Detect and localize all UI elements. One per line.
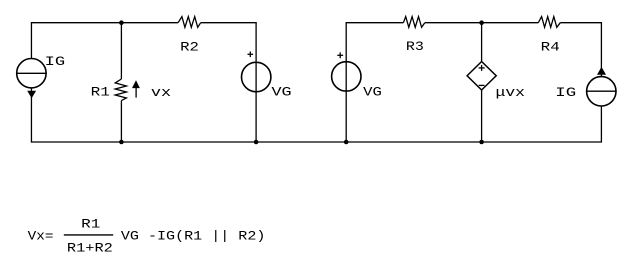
svg-text:R1: R1: [81, 216, 100, 231]
svg-text:R2: R2: [180, 39, 199, 54]
wire: dependent source branch above diamond: [481, 23, 483, 62]
wire: R1 branch below resistor: [120, 101, 122, 142]
resistor R2: [178, 17, 201, 28]
svg-text:Vx=: Vx=: [28, 229, 54, 244]
dependent source uvx (diamond): [467, 62, 496, 91]
wire: R2 right to VG top corner: [201, 22, 257, 24]
plus sign of VG (left): [248, 52, 254, 58]
current source IG (right): [586, 67, 617, 106]
plus sign of VG (right): [337, 52, 343, 58]
wire: dependent source node to R4 left: [482, 22, 539, 24]
resistor R3: [403, 17, 424, 28]
voltage source VG (right): [332, 62, 361, 91]
node: dependent source bottom junction: [479, 140, 484, 145]
current source IG (left): [16, 58, 47, 98]
wire: R3 right to dependent source node: [425, 22, 482, 24]
svg-text:vx: vx: [151, 85, 171, 100]
voltage source VG (left): [242, 62, 271, 91]
wire: right circuit top, VG corner to R3: [346, 22, 404, 24]
node: dependent source top junction: [479, 20, 484, 25]
node: R1 top junction: [119, 20, 124, 25]
resistor R1: [115, 79, 126, 101]
svg-text:VG: VG: [272, 85, 292, 100]
wire: dependent source branch below diamond: [481, 90, 483, 142]
wire: bottom rail: [31, 141, 602, 143]
svg-text:VG: VG: [363, 85, 382, 100]
wire: left vertical above IG source: [30, 23, 32, 59]
node: right VG bottom junction: [344, 140, 349, 145]
svg-text:R1+R2: R1+R2: [67, 240, 113, 255]
svg-text:IG: IG: [555, 85, 576, 100]
svg-text:μvx: μvx: [496, 85, 526, 100]
vx reference arrow: [132, 80, 140, 97]
formula fraction bar: [64, 234, 113, 236]
resistor R4: [538, 17, 560, 28]
svg-text:R1: R1: [91, 85, 111, 100]
wire: R1 top node to R2 left: [121, 22, 178, 24]
wire: right VG branch through source: [345, 23, 347, 142]
node: R1 bottom junction: [119, 140, 124, 145]
svg-text:R4: R4: [541, 39, 560, 54]
svg-text:IG: IG: [45, 54, 65, 69]
wire: left vertical below IG source: [30, 88, 32, 142]
svg-text:R3: R3: [406, 39, 424, 54]
wire: right vertical below IG source: [600, 106, 602, 142]
wire: left VG branch through source: [255, 23, 257, 142]
node: left VG bottom junction: [254, 140, 259, 145]
svg-text:VG -IG(R1 || R2): VG -IG(R1 || R2): [121, 229, 266, 244]
wire: right vertical above IG source: [600, 23, 602, 77]
wire: R1 branch above resistor: [120, 23, 122, 79]
wire: R4 right to top-right corner: [560, 22, 602, 24]
wire top-left: corner to R1 top node: [31, 22, 122, 24]
